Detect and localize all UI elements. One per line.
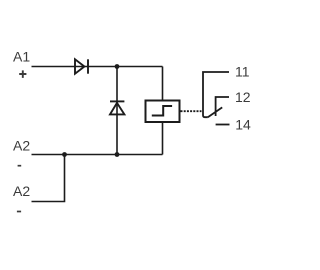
wire A1 corner down to coil top [162,67,164,101]
node junction A2/diode branch [115,152,120,157]
node junction on A1 line [115,64,120,69]
node junction A2/jumper [62,152,67,157]
contact common 11 lead [203,72,229,117]
svg-text:A2: A2 [13,183,30,199]
plus polarity sign [19,70,26,78]
svg-text:12: 12 [235,89,251,105]
contact movable arm [208,107,222,117]
step function symbol inside coil [152,106,172,116]
svg-text:14: 14 [235,116,251,132]
wire A1 horizontal [32,66,163,68]
contact NO 14 lead [216,124,230,126]
minus polarity sign [17,211,21,213]
wire coil bottom down to A2 line [162,122,164,155]
diode D2 freewheel [110,101,124,114]
minus polarity sign [18,165,22,167]
mechanical link dashed [181,110,202,112]
wire A2 jumper [32,155,65,202]
wire A2 horizontal [32,154,163,156]
contact NC 12 lead [216,97,229,116]
svg-text:A1: A1 [13,49,30,65]
svg-text:11: 11 [235,64,250,80]
wire freewheel diode branch vertical [116,67,118,155]
relay coil K1 box [146,101,180,123]
diode D1 series [75,59,88,73]
svg-text:A2: A2 [13,138,30,154]
